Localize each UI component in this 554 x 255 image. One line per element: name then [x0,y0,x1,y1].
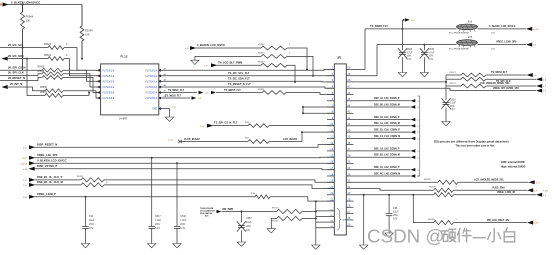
ground (C815) [398,73,406,77]
svg-text:FL7SJK2-A: FL7SJK2-A [145,75,157,78]
svg-text:LCD_ID/AD2: LCD_ID/AD2 [283,138,298,141]
resistor R5101 (clk pair) [77,176,104,182]
svg-text:3_BLK00_LCD_IOVCC: 3_BLK00_LCD_IOVCC [489,25,516,28]
svg-text:DSE_B1_0L_CLK_M: DSE_B1_0L_CLK_M [37,180,64,184]
net DSE_B1_0L_CLK_P [23,175,81,182]
svg-text:4-D: 4-D [23,147,27,149]
watermark CJK glyphs [442,228,515,242]
net TS_MOSI_FLT stub from A6 [163,94,190,98]
no-connect X LCD_ID [168,138,200,143]
wire down to C987 [240,212,242,223]
resistor R5620 0 ohm (series on SCL) [44,43,68,50]
connector pin 12 (left) [327,135,334,139]
capacitor C816 1.0uF [174,215,187,230]
svg-text:FL7SJK5-A: FL7SJK5-A [145,92,157,95]
wire pin 50 up to TS_SW06 net [354,29,366,70]
connector pin 37 (right) [346,147,353,151]
svg-text:TS_RESET_N_FLT: TS_RESET_N_FLT [228,82,251,86]
wire pin 30 net VREG_L23B_SP [354,194,434,196]
svg-text:R5345: R5345 [85,29,93,33]
connector pin 38 (right) [346,141,353,145]
resistor R5206 [429,187,458,193]
junction C987 branch [240,211,242,213]
pin 26_I2C_SDA [2,54,49,61]
connector pin 14 (left) [327,147,334,151]
svg-text:R5101: R5101 [77,176,84,178]
svg-text:C94: C94 [89,215,94,218]
svg-text:FL7SJK2-E: FL7SJK2-E [103,76,115,78]
resistor R5208 [428,219,458,225]
off-page arrow VLED_ENA [527,188,548,192]
net 2_BLKEN_LCM_IOVCC (top-left supply rail) [0,0,82,6]
wire E16 to output arrow [478,28,527,30]
svg-text:FS-CHNNJE30BRNE: FS-CHNNJE30BRNE [449,48,469,50]
net label VREG_INT_DVDD_1P0 [493,87,519,90]
wire net A3 to connector pin 3 [163,80,334,83]
connector pin 20 (left) [327,185,334,189]
connector pin 6 (left) [327,97,334,101]
resistor R5071 [450,72,487,77]
off-page arrow TS_MOSI [527,73,537,77]
svg-text:2-G: 2-G [533,75,537,77]
svg-text:6.3V: 6.3V [428,59,433,61]
wire IOVCC rail down to R5644 [22,5,24,13]
wire CLK to FL12 pin 4 [63,74,101,87]
svg-text:10K: 10K [85,33,90,37]
net DSE_C2_LN2_CONN_P [354,167,421,172]
svg-text:2-G: 2-G [205,93,209,95]
svg-text:20%: 20% [428,56,433,58]
wire down to C846 [423,45,425,51]
svg-text:VREG_L23B_3P0: VREG_L23B_3P0 [496,41,517,44]
wire INT to FL12 pin 6 [63,91,101,98]
svg-text:DSE_A2_LN2_CONN_P: DSE_A2_LN2_CONN_P [374,147,400,150]
svg-text:TN_LCD_BLT_PWM: TN_LCD_BLT_PWM [218,61,242,65]
svg-text:TS_I2C_SDA_FLT: TS_I2C_SDA_FLT [228,77,250,81]
svg-text:VREG_L4E_3P0: VREG_L4E_3P0 [37,153,58,157]
wire net A2 to connector pin 2 [163,75,334,77]
svg-text:1-C: 1-C [417,157,421,159]
svg-text:GND: GND [152,109,157,111]
off-page arrow MODE_SEL [536,84,547,88]
junction SDA branch at x=27 [26,58,28,60]
connector pin 16 (left) [327,160,334,164]
svg-text:3_BLKEN_LCD_IOVCC: 3_BLKEN_LCD_IOVCC [197,43,225,47]
connector pin 13 (left) [327,141,334,145]
svg-text:JP1: JP1 [337,55,342,59]
wire CS to FL12 pin 3 [63,70,101,81]
wire bus to R5072 [446,78,461,80]
wire R5356 to connector pin 11 [269,131,334,141]
net DSE_C1_CLK_CONN_M [354,136,421,141]
connector shield pin S2 [316,215,335,217]
net DISP_VSYNC_P [23,164,334,171]
wire pin 32 to AMOLED_MODE net [354,181,439,183]
svg-text:R5658: R5658 [40,87,47,89]
wire C815 to ground [402,57,404,72]
FL12 left pin label 4 [103,87,115,89]
svg-text:10V: 10V [246,229,251,232]
junction C816 branch [176,162,178,164]
connector pin 19 (left) [327,179,334,183]
svg-text:DSE_A1_LN1_CONN_M: DSE_A1_LN1_CONN_M [374,122,400,125]
connector shield pin S4 [316,226,335,228]
svg-text:C987: C987 [246,217,252,220]
wire jog pin30 to R5207 [433,194,435,196]
connector pin 34 (right) [346,166,353,170]
FL12 left pin label 1 [103,70,115,72]
svg-text:3-B: 3-B [172,107,176,109]
wire down to C816 [176,163,178,226]
svg-text:1-C: 1-C [417,170,421,172]
net DISP_RESET_N [23,142,334,149]
wire C987 to ground [240,230,242,242]
FL12 right pin A4 [159,84,167,88]
svg-text:2-H: 2-H [200,126,204,128]
FL12 GND pin [152,107,163,110]
net VREG_L23B_P [23,192,255,199]
net TS_SW06_FLT [365,24,457,29]
capacitor C96 10uF [386,207,399,221]
connector pin 36 (right) [346,154,353,158]
svg-text:4-B3-B: 4-B3-B [21,163,28,165]
svg-text:6.3V: 6.3V [450,109,455,111]
wire E76 to output arrow [478,44,527,46]
svg-text:1.0uF: 1.0uF [180,219,187,222]
svg-text:2_BLKEN LCM IOVCC: 2_BLKEN LCM IOVCC [11,0,40,4]
FL12 right pin label A2 [145,75,157,78]
svg-text:R5073: R5073 [450,83,457,85]
wire net A1 to connector pin 1 [163,68,334,71]
capacitor C815 (DNI, X-ed) 4.7uF [398,48,413,61]
connector pin 11 (left) [327,128,334,132]
capacitor C987 (DNI, X-ed) 10uF [237,217,253,232]
wire down to ground (right) [363,195,365,245]
svg-text:1.0uF: 1.0uF [450,103,456,105]
svg-text:R5208: R5208 [428,219,435,221]
svg-text:6.3V: 6.3V [407,59,412,61]
wire down to C817 [151,158,153,227]
net label TS_I2C_SCL_FLT [228,71,250,75]
svg-text:R5621: R5621 [44,54,52,57]
wire net A4 to connector pin 4 [163,87,334,88]
FL12 right pin A1 [159,67,167,71]
junction C846 branch [423,44,425,46]
wire C818 to ground [445,108,447,122]
wire pin 48 to resistor bus [354,81,448,83]
connector pin 17 (left) [327,166,334,170]
svg-text:4-D4: 4-D4 [168,139,174,141]
svg-text:High: external DVDD: High: external DVDD [501,166,526,169]
svg-text:DSE_C2_LN2_CONN_P: DSE_C2_LN2_CONN_P [374,167,400,169]
resistor R10 (series on VREG_L23B) [251,193,270,199]
net label VREG_L23B_3P0 [496,41,517,44]
svg-text:1-B: 1-B [23,185,27,187]
svg-text:1.0uF: 1.0uF [155,219,162,222]
resistor R5644 10K (vertical pull-up) [21,12,34,29]
net DSE_B1_0L_CLK_M [23,180,81,187]
svg-text:R5351: R5351 [258,89,265,91]
wire R5352 to connector pin 1 [287,48,308,70]
off-page arrow H-3 [405,18,415,22]
net VREG_L4E_3P0 [22,153,334,160]
svg-text:DSE_NC_LN2_CONN_M: DSE_NC_LN2_CONN_M [374,173,400,175]
svg-text:E16: E16 [468,21,473,23]
pin 26_RESET_N [0,76,42,81]
connector pin 28 (right) [346,204,353,208]
net wire to bead E76 [377,44,457,46]
svg-text:10K: 10K [26,19,31,23]
connector pin 18 (left) [327,172,334,176]
wire mid supply [195,55,261,57]
svg-text:10uF: 10uF [246,221,252,224]
net DSE_B0_LN0_CONN_M [354,104,421,109]
svg-text:R5205: R5205 [272,221,279,223]
net PM_LCD_BKLT_EN out [454,219,528,223]
svg-text:JTZ-43-BKD3-B: JTZ-43-BKD3-B [200,209,215,212]
wire C846 to ground [423,57,425,72]
off-page arrow VREG out [526,43,537,47]
svg-text:C816: C816 [180,215,186,218]
svg-text:LCD_VMOLED_MODE_SEL: LCD_VMOLED_MODE_SEL [480,83,510,85]
resistor R5351 (series, row A5) [258,89,286,95]
svg-text:DSE_C1_CLK_CONN_M: DSE_C1_CLK_CONN_M [374,136,400,138]
ground stub (mid top) [194,56,196,60]
stub connector pin 7 [302,106,334,108]
wire down to C818 [445,86,447,100]
connector pin 35 (right) [346,160,353,164]
net DSE_C0_LN1_CONN_P [354,117,421,122]
connector pin 48 (right) [346,78,353,82]
connector pin 25 (right) [346,223,353,227]
wire between pins 7 and 8 stubs [302,107,304,113]
resistor R5102 (clk pair) [81,182,108,187]
wire R5659 to RESET net [63,92,90,96]
wire LCD_ID to resistor [181,141,248,143]
svg-text:4-G: 4-G [536,182,540,184]
svg-text:V_BLKEN_LCD_IOVCC: V_BLKEN_LCD_IOVCC [37,158,67,162]
filter array FL12 body [101,55,159,121]
FL12 right pin A6 [159,95,167,99]
wire down to C815 [402,29,404,50]
connector shield pin S1 [316,209,335,211]
net TS_SPI_CS_N_FLT entry [200,121,248,128]
connector pin 33 (right) [346,172,353,176]
svg-text:26_I2C_SDA: 26_I2C_SDA [8,54,24,58]
svg-text:VLUD_ID/AD2: VLUD_ID/AD2 [184,138,200,141]
net label TS_I2C_SDA_FLT [228,77,250,81]
pin 25_INT_N [2,82,46,91]
FL12 left pin label 3 [103,81,115,83]
svg-text:FL7SJK6-E: FL7SJK6-E [103,98,115,100]
junction C815 branch [402,28,404,30]
wire pin 47 to VREG_INT out [354,88,537,90]
ground (shield bus) [312,245,320,249]
connector pin 39 (right) [346,135,353,139]
resistor R5352 [258,44,291,50]
svg-text:R5353: R5353 [258,53,265,55]
ground (C817) [148,244,156,248]
svg-text:LCD_AMOLED_MODE_SEL: LCD_AMOLED_MODE_SEL [474,178,504,181]
resistor R5205 (shield) [272,216,302,222]
svg-text:VIM_PWR: VIM_PWR [222,208,233,211]
wire down to BKLT row [413,195,433,223]
watermark CSDN text [367,226,445,247]
net DSE_A2_LN2_CONN_P [354,147,421,153]
FL12 right pin label A1 [145,69,157,72]
connector pin 45 (right) [346,97,353,101]
connector pin 10 (left) [327,122,334,126]
net LCD_AMOLED_MODE_SEL out [458,178,529,182]
junction on IOVCC rail at x=22.5 [22,4,24,6]
svg-text:25_INT_N: 25_INT_N [10,82,22,86]
svg-text:GND: internal DVDD: GND: internal DVDD [501,161,525,164]
ground (C96) [385,233,393,237]
wire FL12 GND to ground [163,107,176,117]
wire SDA branch down to R5659 [27,59,45,96]
wire C817 to ground [151,228,153,243]
pin 26_SPI_CS_N [0,65,42,70]
connector pin 7 (left) [327,103,334,107]
svg-text:E76: E76 [468,37,473,39]
off-page arrow VREG_INT [536,89,547,93]
svg-text:R5206: R5206 [429,187,436,189]
connector pin 26 (right) [346,216,353,220]
wire bus to R5073 [446,85,461,87]
svg-text:R5659: R5659 [40,92,47,94]
svg-text:26_I2C_SCL: 26_I2C_SCL [8,43,24,47]
resistor R5353 [258,53,291,59]
svg-text:6.3V: 6.3V [155,227,160,230]
svg-text:R5204: R5204 [272,208,279,210]
net LCD_VMOLED_MODE_SEL out [480,83,536,86]
FL12 right pin A3 [159,78,167,82]
connector pin 31 (right) [346,185,353,189]
svg-text:DSE_B2_LN2_CONN_M: DSE_B2_LN2_CONN_M [374,155,400,157]
svg-text:FL7SJK4-E: FL7SJK4-E [103,87,115,89]
svg-text:TS_MOSI_FLT: TS_MOSI_FLT [491,71,508,74]
wire pin 49 up to VREG net [354,45,378,76]
FL12 left pin label 6 [103,98,115,100]
net label 3_BLK00_LCD_IOVCC [489,25,516,28]
shield bus vertical [315,200,317,245]
wire R5101 to connector pin 19 [104,180,334,182]
FL12 right pin label A3 [145,80,157,83]
svg-text:R5620: R5620 [44,43,52,46]
svg-text:DSE_C0_LN1_CONN_P: DSE_C0_LN1_CONN_P [374,117,400,119]
svg-text:GND: GND [342,219,347,221]
svg-text:10V: 10V [89,227,94,230]
wire RESET to FL12 pin 5 [63,77,101,92]
wire up to off-page H-3 [403,19,405,29]
connector pin 49 (right) [346,72,353,76]
net label LCD_ID/AD2 [283,138,298,141]
connector pin 42 (right) [346,116,353,120]
resistor R5072 [461,77,486,81]
ground (C987) [237,242,245,246]
connector pin 21 (left) [327,191,334,195]
net 3_BLKEN_LCD_IOVCC entry [185,43,261,50]
svg-text:FL7SJK5-E: FL7SJK5-E [103,93,115,95]
resistor R5621 0 ohm (series on SDA) [44,54,68,61]
FL12 left pin label 5 [103,93,115,95]
ground (C818) [442,122,450,126]
FL12 left pin 3 [96,80,100,83]
svg-text:R5644: R5644 [26,15,34,19]
FL12 left pin label 2 [103,76,115,78]
svg-text:DSE_B0_LN0_CONN_M: DSE_B0_LN0_CONN_M [374,104,400,106]
wire R5205 left to ground [271,219,276,229]
resistor R5656 0 ohm (series on CLK) [38,71,64,76]
resistor bus vertical [445,75,447,86]
wire down to C96 [388,195,390,214]
ferrite bead E76 [449,37,495,50]
ground (C94) [81,244,89,248]
svg-text:R5655: R5655 [38,67,45,69]
svg-text:R5354: R5354 [258,62,265,64]
wire R5354 to connector pin 3 [287,65,296,83]
connector pin 5 (left) [327,91,334,95]
off-page arrow TN_SPI_CLK [536,77,547,81]
svg-text:R5071: R5071 [450,72,457,74]
resistor R5073 [450,83,487,88]
resistor R5345 10K (vertical pull-up) [80,26,93,41]
connector pin 32 (right) [346,179,353,183]
wire down to C94 [85,197,87,227]
net TS_MISO_FLT stub from A5 [163,89,197,93]
note text block (part numbers) [200,208,215,218]
FL12 left pin 5 [96,91,100,94]
connector pin 9 (left) [327,116,334,120]
connector pin 15 (left) [327,154,334,158]
wire C94 to ground [85,228,87,243]
resistor R5658 0 ohm (series on INT) [40,87,63,93]
net TS_MOSI_FLT out [486,71,527,75]
junction C817 branch [151,157,153,159]
connector pin 30 (right) [346,191,353,195]
resistor R5657 0 ohm (series on RESET) [42,76,63,80]
svg-text:FL7SJK3-E: FL7SJK3-E [103,81,115,83]
net DSE_A0_LN0_CONN_P [354,97,421,103]
svg-text:4.7uF: 4.7uF [407,52,413,54]
ground (mid top) [191,60,199,64]
connector shield pin S3 [316,221,335,223]
ground (C846) [420,73,428,77]
wire C96 down [388,216,390,233]
brace GND group [337,209,347,231]
svg-text:DSI pinouts are different from: DSI pinouts are different from Display p… [434,140,509,144]
wire R10 to connector pin 22 [270,197,334,201]
connector pin 44 (right) [346,103,353,107]
svg-text:10uF: 10uF [89,219,95,222]
resistor R5354 [258,62,287,68]
svg-text:20%: 20% [407,56,412,58]
svg-text:R5352: R5352 [258,44,265,46]
off-page arrow VREG_L23B_SP [536,193,547,197]
wire R5205 to shield bus [302,218,317,220]
off-page arrow IOVCC out [526,27,539,31]
off-page arrow AMOLED_MODE [529,180,540,184]
capacitor C818 (DNI, X-ed) 1.0uF [441,98,456,111]
svg-text:TS_SW06_FLT: TS_SW06_FLT [370,24,388,28]
connector pin 29 (right) [346,197,353,201]
wire R5353 to connector pin 2 [287,56,314,76]
FL12 right pin A5 [159,90,167,94]
connector JP1 body [334,55,346,235]
connector pin 50 (right) [346,66,353,70]
svg-text:2-H: 2-H [204,66,208,68]
resistor R5655 0 ohm (series on CS) [38,67,64,73]
